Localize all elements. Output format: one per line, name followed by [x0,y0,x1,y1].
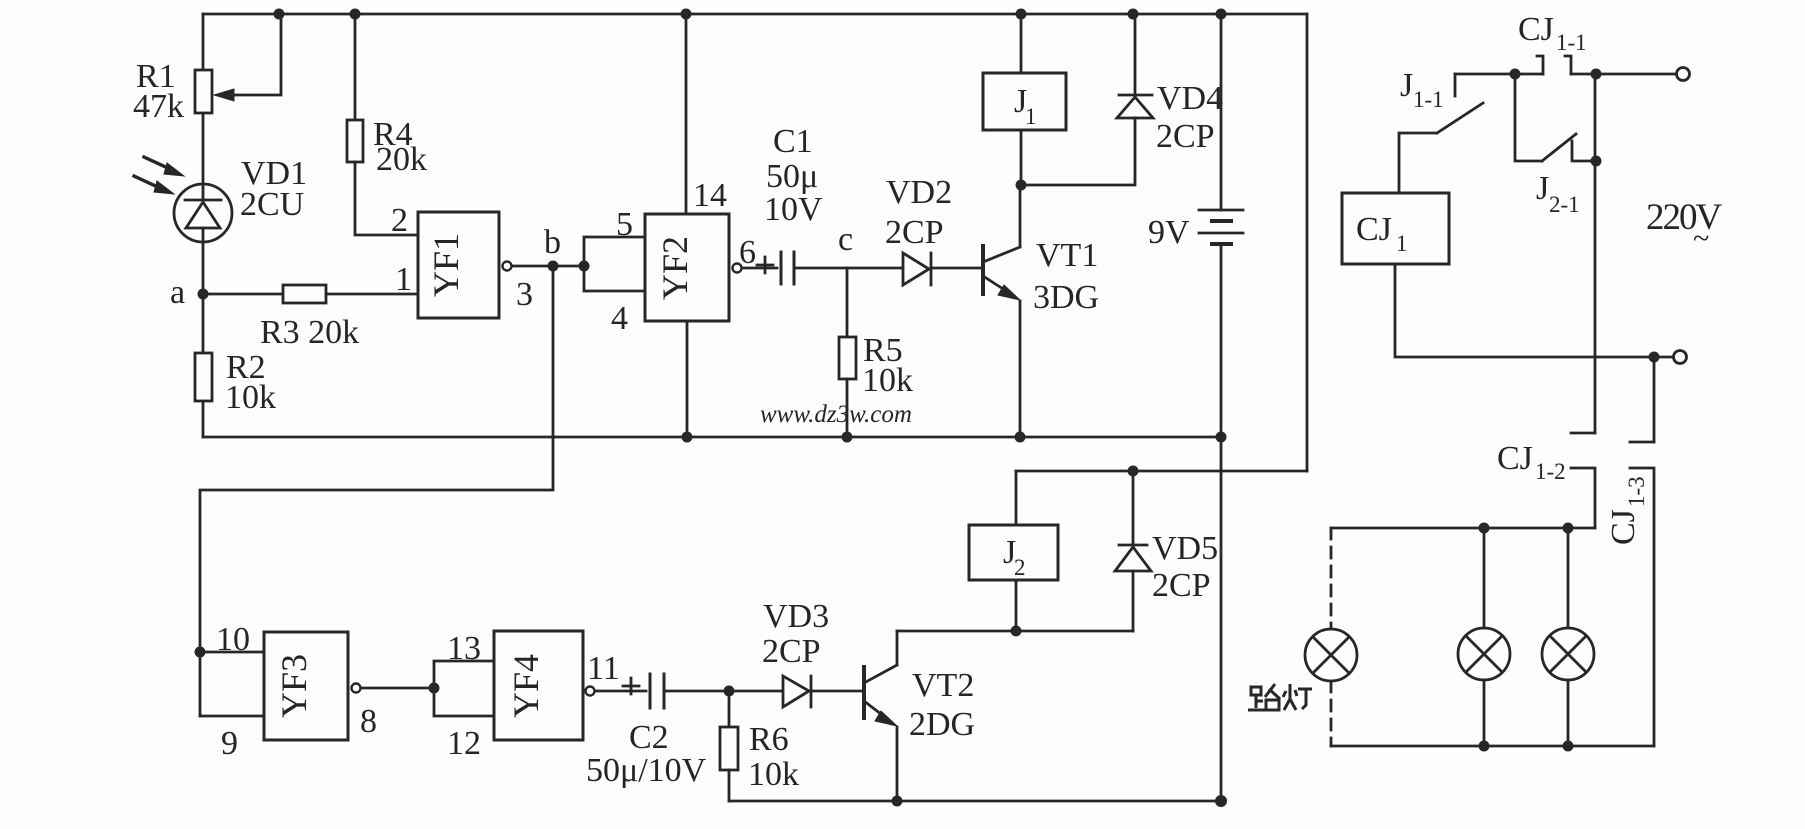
photodiode VD1 [174,184,232,242]
wire C1 to node c [794,267,847,270]
wire bottom of lamp relay circuit [729,800,1221,803]
wire CJ1-3 from tap down [1653,357,1656,442]
svg-text:9: 9 [221,725,238,762]
node dot VD5 top [1128,466,1139,477]
svg-text:~: ~ [1693,222,1709,255]
svg-text:47k: 47k [133,88,184,125]
op-amp block YF4 [494,631,583,740]
wire J2 bottom [1015,580,1018,631]
svg-text:YF1: YF1 [426,233,466,297]
lamp L1 [1305,629,1357,681]
label CJ1-2 [1497,440,1566,484]
diode VD3 [783,676,811,707]
wire C2 to R6 node [664,690,729,693]
diode VD2 [903,253,931,285]
capacitor C1 polarized [757,252,794,284]
svg-text:2CP: 2CP [1152,567,1211,604]
label J2-1 [1536,170,1580,217]
wire CJ1 bottom to lower terminal line [1395,264,1673,357]
svg-text:6: 6 [739,234,756,271]
resistor R4 [347,120,363,162]
svg-text:9V: 9V [1148,214,1190,251]
switch J2-1 [1515,74,1590,161]
label VT1 3DG [1033,237,1099,316]
resistor R6 [720,727,738,770]
svg-text:J: J [1536,170,1549,207]
svg-text:VD5: VD5 [1152,530,1218,567]
svg-text:10: 10 [216,621,250,658]
node dot VT1 collector junction [1016,180,1027,191]
node dot lamp3 top [1563,523,1574,534]
contact CJ1-2 [1571,433,1595,528]
svg-text:CJ: CJ [1605,509,1642,545]
svg-text:1-3: 1-3 [1624,476,1649,507]
node dot main vertical top [1591,69,1602,80]
op-amp block YF3 [264,632,348,740]
svg-text:50μ: 50μ [766,158,818,195]
label 220V [1646,197,1723,255]
diode VD5 [1115,471,1151,631]
label VD4 2CP [1156,80,1223,155]
svg-text:4: 4 [611,300,628,337]
svg-text:C2: C2 [629,719,669,756]
output bubble pin 3 of YF1 [503,262,512,271]
svg-text:YF4: YF4 [506,654,546,718]
svg-text:www.dz3w.com: www.dz3w.com [760,401,912,428]
relay coil J1 [983,73,1066,130]
svg-text:CJ: CJ [1356,211,1392,248]
svg-text:b: b [544,224,561,261]
svg-text:2DG: 2DG [909,706,975,743]
wire left column top (rail to R1) [202,14,205,70]
wire pin11 to C2 [595,690,646,693]
svg-text:VD3: VD3 [763,598,829,635]
node dot lamp3 bottom [1563,741,1574,752]
wire pin6 to C1 [742,267,777,270]
wire lamp3 bottom [1567,680,1570,746]
contact CJ1-3 [1630,442,1654,746]
wire R6 to bottom wire [728,770,731,801]
svg-text:1-2: 1-2 [1535,459,1566,484]
wire rail to relay J1 [1020,14,1023,73]
terminal lower 220V [1674,351,1687,364]
node dot VT2 emitter [892,796,903,807]
contactor coil CJ1 [1342,193,1449,264]
svg-text:1-1: 1-1 [1556,30,1587,55]
svg-text:J: J [1400,67,1413,104]
label R1 47k [133,58,184,125]
svg-text:c: c [838,221,853,258]
wire node a to R3 [203,293,283,296]
wire lamp bottom bus [1331,745,1654,748]
switch J1-1 [1399,74,1483,193]
svg-text:10k: 10k [748,756,799,793]
wire lamp top bus [1331,527,1595,530]
node dot YF2 input join [579,261,590,272]
transistor VT2 [864,631,897,801]
svg-text:10k: 10k [225,379,276,416]
svg-text:2: 2 [1014,555,1026,580]
op-amp block YF1 [418,212,499,318]
node b [548,261,559,272]
transistor VT1 [983,185,1020,437]
wire node to R6 [728,691,731,727]
label R4 20k [373,116,427,178]
resistor R1 [195,14,281,113]
node dot R5 bottom [842,432,853,443]
svg-text:C1: C1 [773,123,813,160]
svg-text:12: 12 [447,725,481,762]
wire VD2 to VT1 base [931,267,981,270]
wire J1 to collector node [1020,130,1023,185]
node dot bottom wire right end [1215,795,1227,807]
svg-text:8: 8 [360,703,377,740]
node dot battery to bottom rail [1216,432,1227,443]
wire input bracket YF2 pins 5 and 4 [584,237,645,291]
lamp L2 [1458,628,1510,680]
label VD2 2CP [885,174,952,251]
svg-text:1: 1 [395,261,412,298]
svg-text:VD2: VD2 [886,174,952,211]
wire main vertical to CJ1-2 [1594,74,1597,433]
wire AC top feed [1455,73,1543,76]
svg-text:CJ: CJ [1518,11,1554,48]
label C2 50u/10V [586,719,707,789]
wire YF2 pin7 to bottom rail [686,321,689,437]
wire top supply rail [203,13,1307,16]
label R2 10k [225,349,276,416]
svg-text:YF3: YF3 [274,654,314,718]
label CJ1-1 [1518,11,1587,55]
svg-text:2CU: 2CU [240,186,304,223]
svg-text:1-1: 1-1 [1413,87,1444,112]
wire pin10 [200,651,264,654]
wire R5 to bottom rail [846,379,849,437]
node dot R6 top [724,686,735,697]
node dot battery on rail [1216,9,1227,20]
label VD1 2CU [240,155,307,223]
wire right rail drop to second relay circuit [1306,14,1309,471]
wire node c to VD2 [847,267,903,270]
node dot pin7 on bottom rail [682,432,693,443]
wire dashed lamp L1 bottom [1330,681,1333,746]
output bubble pin 11 of YF4 [586,687,595,696]
svg-text:2CP: 2CP [885,214,944,251]
svg-text:a: a [170,274,185,311]
wire R4 to YF1 pin2 [355,162,418,235]
node dot J1 on top rail [1016,9,1027,20]
wire node b down and across to YF3 [200,266,553,716]
node dot J2 bottom junction [1011,626,1022,637]
wire R2 to bottom rail [202,401,205,437]
svg-text:YF2: YF2 [655,236,695,300]
label R5 10k [862,332,913,399]
op-amp block YF2 [645,214,729,321]
wire collector node to VD4 [1021,118,1135,185]
node a [198,289,209,300]
svg-text:220V: 220V [1646,197,1723,238]
svg-text:3DG: 3DG [1033,279,1099,316]
node dot J2-1 right [1591,156,1602,167]
lamp L3 [1542,628,1594,680]
svg-text:50μ/10V: 50μ/10V [586,752,707,789]
wire pin9 [200,715,264,718]
wire VT2 collector across to VD5 [897,630,1133,633]
label C1 50u 10V [764,123,823,228]
svg-text:1: 1 [1396,231,1408,256]
label VD5 2CP [1152,530,1218,604]
relay coil J2 [969,525,1058,580]
svg-text:2CP: 2CP [762,633,821,670]
node dot CJ1-3 tap [1649,352,1660,363]
svg-text:10V: 10V [764,191,823,228]
resistor R5 [839,337,856,379]
svg-text:5: 5 [616,206,633,243]
wire bottom rail circuit1 [203,436,1221,439]
wire battery negative down to lamp-circuit common [1220,437,1223,801]
node dot VT1 emitter on rail [1015,432,1026,443]
wire upper rail of second relay circuit [1016,470,1307,473]
node dot YF3 pin10 [195,647,206,658]
diode VD4 [1117,14,1153,118]
svg-text:20k: 20k [376,141,427,178]
resistor R3 [283,285,326,303]
node dot lamp2 bottom [1479,741,1490,752]
wire node c down to R5 [846,268,849,337]
svg-text:2CP: 2CP [1156,118,1215,155]
svg-text:R3 20k: R3 20k [260,314,359,351]
svg-text:2: 2 [391,202,408,239]
capacitor C2 polarized [623,674,664,708]
node dot YF4 input join [429,683,440,694]
svg-text:2-1: 2-1 [1549,192,1580,217]
svg-text:11: 11 [587,650,620,687]
node dot lamp2 top [1479,523,1490,534]
svg-text:VT1: VT1 [1036,237,1098,274]
svg-text:3: 3 [516,276,533,313]
wire VD1 to node a [202,242,205,353]
contact CJ1-1 [1537,56,1571,74]
svg-text:VD4: VD4 [1157,80,1223,117]
output bubble pin 6 of YF2 [733,264,742,273]
wire R3 to YF1 pin1 [326,293,418,296]
wire dashed to lamp L1 [1330,528,1333,629]
label CJ1-3 rotated [1605,476,1649,545]
wire YF3 out to YF4 bracket [361,687,434,690]
wire input bracket YF4 pins 13 and 12 [434,661,494,716]
label street lamp (drawn glyphs) [1248,684,1312,710]
wire rail to R4 [354,14,357,120]
svg-text:VT2: VT2 [912,667,974,704]
resistor R2 [195,353,212,401]
svg-text:CJ: CJ [1497,440,1533,477]
wire VD3 to VT2 base [811,690,862,693]
wire YF2 pin14 to rail [685,14,688,214]
wire lamp3 branch [1567,528,1570,628]
light arrows into VD1 [134,157,184,194]
wire lamp2 bottom [1483,680,1486,746]
battery 9V [1199,14,1243,437]
svg-text:1: 1 [1025,104,1037,129]
label VD3 2CP [762,598,829,670]
wire R1 to VD1 [202,113,205,184]
terminal upper 220V [1677,68,1690,81]
wire CJ1-1 to terminal [1571,73,1676,76]
wire YF1 output to node b [512,265,584,268]
node dot VD4 on rail [1128,9,1139,20]
wire node to VD3 [729,690,783,693]
svg-text:13: 13 [447,630,481,667]
wire lamp2 branch [1483,528,1486,628]
node dot pin14 on rail [681,9,692,20]
wire J2 top to upper wire [1015,471,1018,525]
svg-text:10k: 10k [862,362,913,399]
node dot R4 on rail [350,9,361,20]
label R6 10k [748,721,799,793]
svg-text:14: 14 [693,177,727,214]
svg-text:R6: R6 [749,721,789,758]
label J1-1 [1400,67,1444,112]
node dot R1 wiper on rail [274,9,285,20]
output bubble pin 8 of YF3 [352,684,361,693]
label VT2 2DG [909,667,975,743]
node dot J2-1 branch [1510,69,1521,80]
